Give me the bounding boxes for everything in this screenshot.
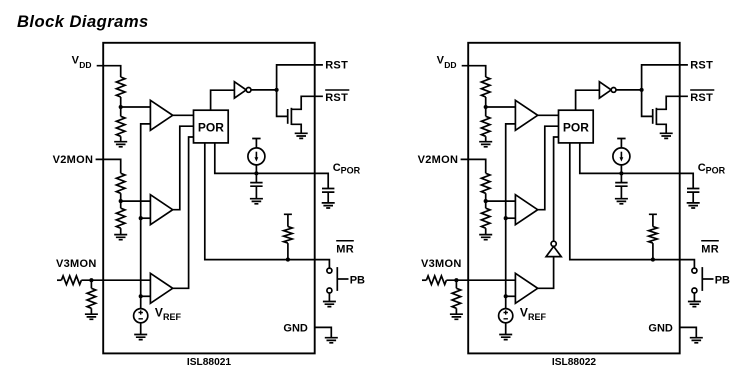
svg-text:Block Diagrams: Block Diagrams [17,12,149,31]
svg-text:ISL88022: ISL88022 [552,357,597,368]
svg-text:ISL88021: ISL88021 [187,357,232,368]
